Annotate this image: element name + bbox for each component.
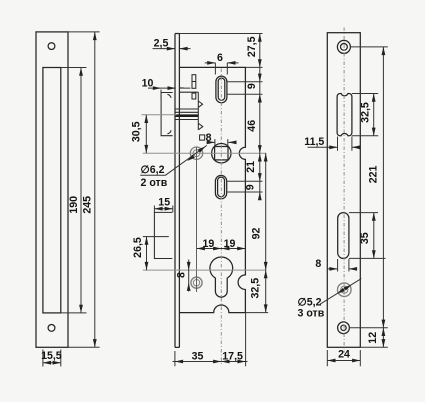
svg-text:19: 19 [203, 238, 215, 250]
dim 8 right [328, 259, 358, 272]
extension line plate top [68, 31, 100, 33]
svg-text:24: 24 [338, 349, 350, 361]
follower square hole [215, 147, 228, 160]
svg-text:11,5: 11,5 [304, 136, 324, 148]
bottom countersunk hole [338, 322, 350, 334]
svg-text:26,5: 26,5 [132, 237, 144, 258]
interior top line [179, 91, 198, 93]
svg-text:15,5: 15,5 [41, 350, 62, 362]
dim 2,5 [153, 48, 191, 50]
svg-text:8: 8 [315, 258, 321, 270]
svg-text:35: 35 [192, 351, 204, 363]
label square 8 with dim [200, 135, 205, 140]
dim 19 19 [197, 248, 246, 250]
svg-text:∅6,2: ∅6,2 [141, 164, 165, 176]
svg-text:2 отв: 2 отв [141, 177, 168, 189]
svg-text:190: 190 [68, 196, 80, 214]
top countersunk hole [337, 40, 350, 53]
svg-text:15: 15 [158, 197, 170, 209]
dim 32,5 [264, 270, 268, 278]
vertical line through ring holes [196, 147, 198, 292]
dim column lines [259, 34, 261, 200]
interior tab 2 [198, 123, 203, 130]
second oval slot outer [215, 175, 226, 199]
interior screw post rects [192, 75, 196, 89]
latch guide box [161, 93, 173, 136]
centerline cylinder [143, 269, 266, 271]
dim 15,5 line [43, 362, 61, 364]
svg-text:46: 46 [246, 120, 258, 132]
latch bolt lines [175, 109, 198, 120]
hole d6.2 ring [190, 147, 202, 159]
right plate outline [327, 33, 360, 348]
svg-text:221: 221 [367, 165, 379, 183]
dim 46 [258, 94, 262, 102]
dim 10 [148, 88, 190, 99]
second oval slot inner [218, 177, 225, 197]
svg-text:8: 8 [176, 272, 188, 278]
dim 92 [264, 153, 268, 161]
dim 190 arrows [79, 68, 83, 76]
dim 24 [327, 350, 360, 366]
left plate slot [43, 68, 61, 313]
extension line plate bottom [68, 346, 100, 348]
dim 245 arrows [93, 32, 97, 40]
svg-text:30,5: 30,5 [130, 121, 142, 142]
dim 9 top [258, 74, 262, 82]
svg-text:9: 9 [245, 184, 257, 190]
long slot [338, 213, 349, 259]
interior tick [179, 87, 183, 89]
dim 21 [258, 173, 262, 181]
faceplate strip [175, 34, 179, 348]
lock body outline with right notches and bottom notch [179, 67, 245, 312]
follower circle [212, 144, 231, 163]
svg-text:27,5: 27,5 [246, 36, 258, 57]
dim 35 17,5 bottom [173, 313, 248, 367]
dim 11,5 [308, 137, 359, 151]
euro cylinder hole [210, 257, 233, 297]
right dim column extension lines [179, 34, 268, 313]
svg-text:9: 9 [246, 83, 258, 89]
extension line slot top [61, 67, 87, 69]
dim 30,5 [145, 115, 147, 153]
centerline right plate [343, 28, 345, 353]
dim 190 line [80, 68, 82, 313]
left plate top screw hole [48, 43, 55, 50]
svg-text:32,5: 32,5 [249, 278, 261, 299]
dim 8 bottom left [188, 260, 190, 292]
svg-text:3 отв: 3 отв [298, 307, 325, 319]
svg-text:19: 19 [224, 238, 236, 250]
interior vertical line [197, 92, 199, 130]
left plate bottom screw hole [48, 325, 55, 332]
svg-text:2,5: 2,5 [154, 38, 169, 50]
deadbolt line [143, 236, 169, 238]
dim 32,5 right [352, 94, 378, 136]
centerline follower [143, 152, 266, 154]
svg-text:32,5: 32,5 [359, 102, 371, 123]
extension line slot bottom [61, 312, 87, 314]
svg-text:6: 6 [217, 52, 223, 64]
svg-text:35: 35 [359, 232, 371, 244]
svg-text:17,5: 17,5 [222, 351, 243, 363]
dim 27,5 [258, 34, 262, 42]
latch guide fillet bottom [167, 130, 171, 134]
lower ring hole [191, 277, 202, 288]
latch bolt thick band [175, 114, 198, 117]
centerline latch [142, 114, 177, 116]
dim 15 [154, 206, 172, 213]
dim 26,5 [146, 237, 148, 271]
svg-text:21: 21 [245, 161, 257, 173]
dim 6 [205, 63, 239, 75]
bone slot [337, 94, 352, 136]
dim 221 and 12 [349, 47, 387, 347]
dim 15,5 extension lines [43, 350, 61, 367]
svg-text:245: 245 [82, 196, 94, 214]
dim 245 line [94, 32, 96, 347]
top oval slot outer [216, 76, 227, 103]
dim 9 second [258, 192, 262, 200]
ring hole d5,2 [338, 283, 352, 297]
dim 15,5 arrows [43, 361, 51, 365]
svg-text:12: 12 [367, 332, 379, 344]
interior tab 1 [198, 101, 202, 107]
deadbolt box [154, 212, 172, 258]
dim 35 right [349, 213, 386, 259]
svg-text:10: 10 [142, 78, 154, 90]
latch guide fillet top [167, 94, 171, 98]
svg-text:92: 92 [251, 228, 263, 240]
centerline vertical middle [220, 69, 222, 367]
left plate outline [36, 32, 68, 347]
top oval slot inner [218, 78, 225, 100]
